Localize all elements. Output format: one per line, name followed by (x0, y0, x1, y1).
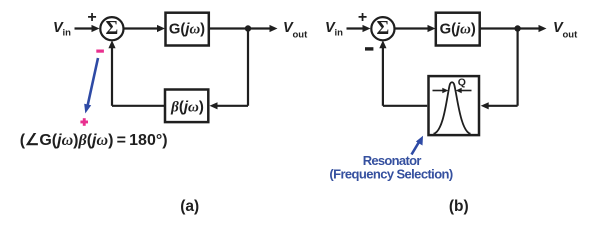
svg-text:(Frequency Selection): (Frequency Selection) (329, 167, 452, 182)
svg-text:(a): (a) (180, 198, 199, 215)
plus sign magenta (a) (80, 118, 88, 126)
blue annotation arrow (b) (412, 136, 424, 155)
svg-text:Σ: Σ (377, 18, 390, 39)
junction dot (b) (514, 25, 520, 31)
bandwidth arrow right (456, 88, 472, 93)
svg-text:(∠G(jω)β(jω) = 180°): (∠G(jω)β(jω) = 180°) (20, 132, 168, 149)
svg-text:out: out (293, 30, 309, 41)
wire junction down (a) (247, 29, 249, 106)
wire G block to Vout with junction (b) (480, 25, 547, 32)
wire summer to G block (a) (124, 25, 166, 32)
svg-text:+: + (87, 9, 96, 26)
node Vout (a) (283, 20, 308, 41)
svg-text:Q: Q (458, 77, 466, 89)
svg-text:(b): (b) (449, 198, 469, 215)
summing junction (b) (371, 17, 394, 40)
wire Vin to summer (b) (347, 25, 371, 32)
svg-text:G(jω): G(jω) (440, 21, 476, 37)
blue annotation arrow (a) (84, 58, 98, 114)
node Vin (a) (53, 20, 71, 39)
minus sign magenta (a) (96, 50, 104, 53)
minus sign at summer (b) (365, 47, 373, 50)
wire into beta block right side (a) (210, 102, 249, 109)
wire junction down (b) (516, 29, 518, 106)
svg-text:Σ: Σ (106, 18, 119, 39)
resonator block (b) (429, 76, 480, 135)
block beta(jw) (a) (165, 90, 208, 123)
svg-text:in: in (63, 28, 72, 39)
svg-text:out: out (563, 30, 579, 41)
wire resonator to summer bottom (b) (379, 40, 427, 106)
svg-text:G(jω): G(jω) (169, 21, 205, 37)
junction dot (a) (245, 25, 251, 31)
bandwidth arrow left (433, 88, 449, 93)
wire beta block to summer bottom (a) (108, 40, 165, 106)
node Vout (b) (553, 20, 578, 41)
wire into resonator right side (b) (481, 102, 518, 109)
resonance curve (434, 82, 471, 134)
svg-text:+: + (358, 9, 367, 26)
wire G block to Vout with junction (a) (209, 25, 278, 32)
block G(jw) (b) (436, 13, 480, 46)
svg-text:in: in (335, 28, 344, 39)
wire summer to G block (b) (395, 25, 436, 32)
wire Vin to summer (a) (75, 25, 100, 32)
node Vin (b) (325, 20, 343, 39)
svg-text:β(jω): β(jω) (170, 98, 204, 115)
summing junction (a) (100, 17, 123, 40)
block G(jw) (a) (166, 13, 209, 46)
